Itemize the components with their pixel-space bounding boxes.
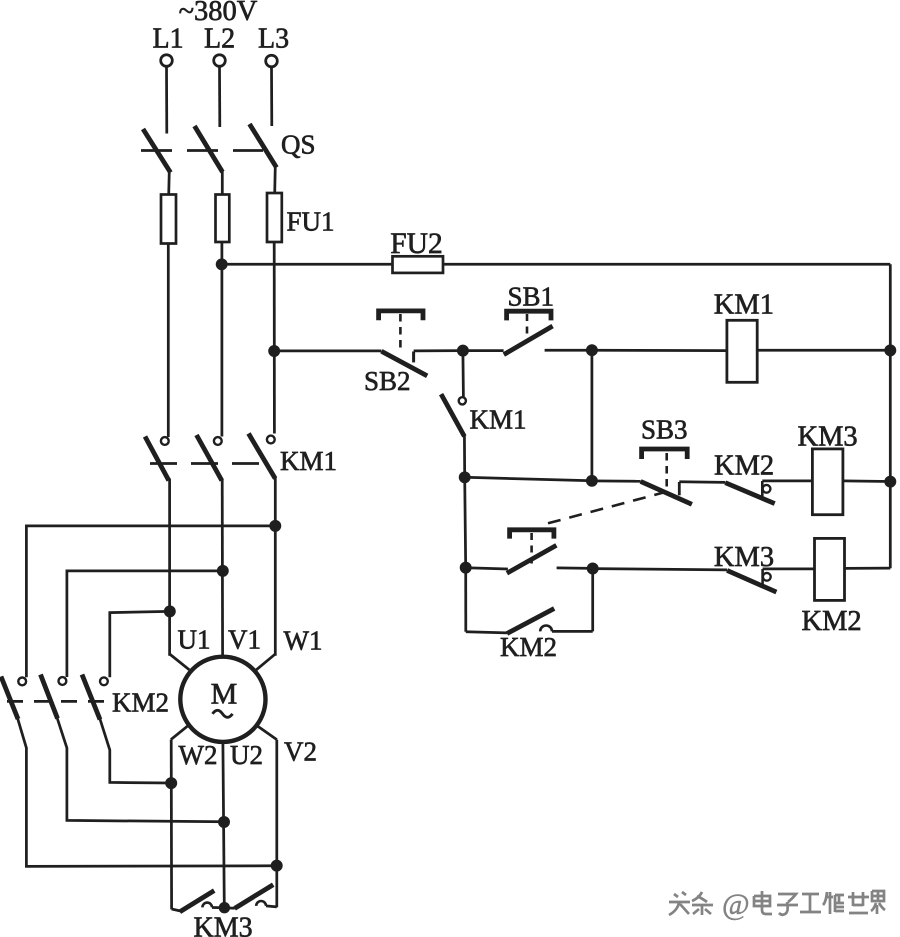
switch QS linkage dashed xyxy=(141,149,263,152)
node row2 left xyxy=(460,473,469,482)
wire L3 terminal to QS xyxy=(270,67,273,126)
button SB2 cap xyxy=(379,311,423,320)
svg-text:KM1: KM1 xyxy=(470,405,527,435)
label SB2 xyxy=(364,366,411,396)
wire KM2 pole3 top link (U1 to pole3) xyxy=(110,611,170,677)
wire SB3 to KM2 aux xyxy=(679,480,725,483)
svg-text:KM1: KM1 xyxy=(280,446,337,476)
svg-text:FU2: FU2 xyxy=(390,228,442,260)
wire KM3 pole2 to V2 column xyxy=(266,906,277,907)
label KM1 coil xyxy=(714,290,774,321)
contact KM1 aux circle xyxy=(459,397,466,404)
wire KM2 aux to KM3 coil xyxy=(762,480,812,483)
wire row3 left lead xyxy=(466,568,508,569)
wire row4 right lead xyxy=(552,630,593,633)
label L1 xyxy=(153,24,184,55)
wire V2 column xyxy=(275,740,278,908)
contact KM2 aux row4 hook xyxy=(540,626,552,632)
motor M circle xyxy=(180,657,265,742)
label QS xyxy=(281,130,316,160)
svg-text:KM2: KM2 xyxy=(714,451,774,482)
terminal L3 xyxy=(266,55,278,67)
contactor KM2 linkage dashed xyxy=(7,700,106,703)
label V2 xyxy=(284,737,317,767)
contactor KM2 pole3 contact circle xyxy=(100,677,108,685)
wire SB2 to node xyxy=(414,349,463,352)
wire right rail vertical xyxy=(889,264,892,568)
terminal L1 xyxy=(161,55,173,67)
button SB3 blade xyxy=(641,481,692,504)
svg-text:L3: L3 xyxy=(258,24,289,55)
wire KM1 aux top lead xyxy=(462,351,465,397)
button SB2 fixed stub xyxy=(412,352,415,363)
contact KM3 aux hook xyxy=(763,569,771,585)
label FU2 xyxy=(390,228,442,260)
wire KM3 coil to right rail xyxy=(843,480,890,483)
svg-text:SB2: SB2 xyxy=(364,366,411,396)
node right rail row2 xyxy=(886,477,895,486)
wire node to SB1 xyxy=(463,349,504,352)
wire U2 column xyxy=(223,742,224,908)
contactor KM2 pole1 contact circle xyxy=(18,678,26,686)
svg-text:U1: U1 xyxy=(178,625,211,655)
coil KM1 xyxy=(727,320,757,382)
wire W1 column xyxy=(274,477,277,656)
node row2 mid xyxy=(587,476,596,485)
button SB1 blade xyxy=(504,326,553,355)
wire U1 column xyxy=(168,479,171,656)
contactor KM3 pole1 blade xyxy=(180,891,214,912)
node row3 mid xyxy=(588,564,597,573)
node V1 xyxy=(218,566,227,575)
wire FU2 to right rail xyxy=(443,263,890,266)
label KM2 aux row4 xyxy=(500,632,557,662)
label KM2 main xyxy=(112,688,169,718)
svg-text:L2: L2 xyxy=(204,24,235,55)
wire L1 terminal to QS xyxy=(165,66,168,133)
label U1 xyxy=(178,625,211,655)
wire W2 lead from motor xyxy=(171,726,188,739)
wire row4 left lead xyxy=(466,632,507,633)
svg-text:U2: U2 xyxy=(230,740,263,770)
contact KM2 aux row2 hook xyxy=(762,481,770,498)
svg-text:QS: QS xyxy=(281,130,316,160)
contactor KM2 pole2 contact circle xyxy=(59,677,67,685)
label KM3 coil xyxy=(798,422,858,453)
node control tap on L3 xyxy=(270,346,279,355)
label SB1 xyxy=(508,282,555,312)
contact KM1 aux blade xyxy=(441,394,464,436)
svg-text:@: @ xyxy=(722,888,750,921)
contactor KM2 pole3 blade xyxy=(82,675,100,720)
watermark toutiao xyxy=(669,888,885,921)
button SB3 rod dashed xyxy=(665,453,668,491)
button SB1 cap xyxy=(507,311,551,320)
svg-text:KM2: KM2 xyxy=(802,606,862,637)
wire W1 lead into motor xyxy=(256,654,275,670)
terminal L2 xyxy=(214,55,226,67)
contact KM2 aux row4 blade xyxy=(507,609,554,634)
switch QS pole 1 blade xyxy=(143,129,171,173)
svg-text:W2: W2 xyxy=(179,740,218,770)
fuse FU2 xyxy=(393,256,444,273)
node row1 A xyxy=(458,346,467,355)
motor tilde xyxy=(213,710,233,717)
svg-text:V1: V1 xyxy=(228,625,261,655)
node row1 B xyxy=(587,346,596,355)
svg-text:M: M xyxy=(211,678,238,711)
label KM3 aux xyxy=(714,542,774,573)
button SB3 NC blade xyxy=(507,545,557,573)
wire row2 to SB3 xyxy=(592,480,641,483)
node U2 xyxy=(219,817,228,826)
wire row2 left segment xyxy=(465,477,592,480)
label FU1 xyxy=(287,207,335,237)
node U1 xyxy=(165,607,174,616)
contactor KM3 pole2 contact hook xyxy=(256,901,266,906)
wire KM3 pole1 to U2 node xyxy=(212,906,224,909)
node row3 left xyxy=(461,563,470,572)
svg-text:SB3: SB3 xyxy=(641,415,688,445)
svg-text:FU1: FU1 xyxy=(287,207,335,237)
wire KM1 aux bottom lead xyxy=(463,434,466,477)
button SB2 rod dashed xyxy=(399,314,402,352)
contactor KM2 pole1 blade xyxy=(1,677,18,720)
svg-text:KM2: KM2 xyxy=(500,632,557,662)
contactor KM1 main pole2 blade xyxy=(197,435,222,481)
svg-text:KM2: KM2 xyxy=(112,688,169,718)
wire SB3 NC to node xyxy=(557,567,593,570)
label L2 xyxy=(204,24,235,55)
contact KM3 aux blade xyxy=(727,570,776,592)
label U2 xyxy=(230,740,263,770)
svg-text:KM3: KM3 xyxy=(714,542,774,573)
svg-text:L1: L1 xyxy=(153,24,184,55)
coil KM2 xyxy=(815,538,845,600)
wire row3 to row4 left vertical xyxy=(464,568,467,632)
label ~380V supply xyxy=(179,0,258,27)
wire L1 fuse to KM1 main xyxy=(167,244,170,438)
wire control feed to FU2 xyxy=(222,263,393,266)
wire U1 lead into motor xyxy=(170,654,190,670)
contactor KM1 main pole3 blade xyxy=(249,434,276,479)
label KM1 aux xyxy=(470,405,527,435)
svg-text:KM3: KM3 xyxy=(194,913,253,937)
wire L3 fuse to KM1 main xyxy=(273,242,276,434)
wire KM3 aux to KM2 coil xyxy=(763,568,815,571)
label W2 xyxy=(179,740,218,770)
svg-text:KM1: KM1 xyxy=(714,290,774,321)
fuse FU1 pole2 xyxy=(216,195,230,243)
coil KM3 xyxy=(812,449,843,515)
wire KM1 coil to right rail xyxy=(757,349,890,352)
wire V2 lead from motor xyxy=(258,726,277,739)
wire row1B to row2 vertical xyxy=(591,350,594,481)
button SB1 rod dashed xyxy=(526,314,529,340)
contactor KM1 main linkage dashed xyxy=(150,462,263,465)
label V1 xyxy=(228,625,261,655)
label KM2 coil xyxy=(802,606,862,637)
label KM2 aux row2 xyxy=(714,451,774,482)
linkage SB3 to NC dashed diagonal xyxy=(548,492,665,523)
switch QS pole 2 blade xyxy=(195,126,223,172)
wire L2 terminal to QS xyxy=(218,66,221,127)
node W2 xyxy=(167,779,176,788)
wire row1 left xyxy=(274,350,381,353)
wire KM2 pole3 bottom link (pole3 to W2) xyxy=(100,718,172,784)
contactor KM1 main pole1 contact circle xyxy=(161,437,169,445)
motor M letter xyxy=(211,678,238,711)
contact KM2 aux row2 blade xyxy=(725,483,774,504)
button SB3 cap xyxy=(642,449,688,459)
wire QS pole1 to FU1 xyxy=(167,170,170,195)
contactor KM1 main pole2 contact circle xyxy=(214,437,222,445)
wire row4 to row3 vertical xyxy=(591,569,594,632)
contactor KM3 pole1 contact hook xyxy=(202,903,212,908)
wire KM2 pole1 bottom link (pole1 to V2) xyxy=(18,718,277,866)
node right rail row1 xyxy=(886,346,895,355)
wire QS pole3 to FU1 xyxy=(273,165,276,194)
button SB3 NC cap xyxy=(510,530,554,539)
wire QS pole2 to FU1 xyxy=(221,170,224,195)
wire KM2 coil to right rail end xyxy=(845,567,891,570)
button SB2 blade xyxy=(381,351,427,376)
svg-text:KM3: KM3 xyxy=(798,422,858,453)
contactor KM1 main pole3 contact circle xyxy=(267,436,275,444)
wire row2 to row3 left vertical xyxy=(465,477,466,567)
node L2 control tap xyxy=(217,260,226,269)
wire L2 fuse to KM1 main xyxy=(221,242,224,437)
node V2 xyxy=(272,861,281,870)
wire KM2 pole2 bottom link (pole2 to U2) xyxy=(57,718,224,822)
wire KM2 pole2 top link (V1 to pole2) xyxy=(67,571,223,677)
switch QS pole 3 blade xyxy=(250,124,277,168)
contactor KM2 pole2 blade xyxy=(41,675,58,719)
wire row3 to KM3 aux xyxy=(593,569,727,570)
button SB3 NC rod dashed xyxy=(530,533,533,564)
svg-text:SB1: SB1 xyxy=(508,282,555,312)
contactor KM1 main pole1 blade xyxy=(145,437,169,481)
wire node B to KM1 coil xyxy=(592,349,727,352)
wire W2 column xyxy=(170,740,173,910)
label L3 xyxy=(258,24,289,55)
contactor KM3 pole1 lead xyxy=(172,909,181,911)
wire KM2 pole1 top link (W1 to pole1) xyxy=(26,526,275,677)
svg-text:W1: W1 xyxy=(284,626,323,656)
contactor KM3 pole2 blade xyxy=(235,885,274,909)
fuse FU1 pole3 xyxy=(267,193,282,242)
label KM3 bottom xyxy=(194,913,253,937)
fuse FU1 pole1 xyxy=(161,195,176,244)
svg-text:V2: V2 xyxy=(284,737,317,767)
label KM1 main xyxy=(280,446,337,476)
label W1 xyxy=(284,626,323,656)
label SB3 xyxy=(641,415,688,445)
button SB3 fixed stub xyxy=(678,482,681,495)
contactor KM3 pole2 lead xyxy=(224,906,234,909)
node KM3 mid xyxy=(220,903,229,912)
wire V1 column xyxy=(221,479,224,658)
node W1 xyxy=(271,521,280,530)
wire SB1 to node B xyxy=(545,349,592,352)
